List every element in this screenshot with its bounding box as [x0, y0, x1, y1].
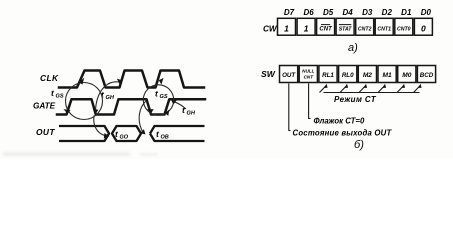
svg-text:CLK: CLK	[40, 73, 59, 83]
svg-text:1: 1	[284, 24, 289, 34]
text Sostoyanie vyhoda OUT	[293, 129, 393, 138]
label tGS second	[155, 89, 168, 101]
label tGH second	[182, 105, 196, 117]
CW bit header D6	[303, 8, 314, 17]
svg-text:GS: GS	[56, 94, 64, 100]
svg-text:t: t	[155, 89, 159, 99]
leader line from NULL CNT cell down	[309, 84, 311, 119]
svg-text:CW: CW	[263, 25, 278, 34]
OUT signal label	[36, 127, 55, 137]
curved arrow GATE fall1 to OUT transition1	[94, 115, 110, 138]
svg-text:D7: D7	[284, 8, 295, 17]
svg-text:D0: D0	[421, 8, 432, 17]
curved arrow GATE fall2 to OUT transition2	[139, 101, 146, 135]
text Rezhim CT	[334, 95, 377, 104]
CW bit cell D5: CNT	[317, 18, 335, 35]
svg-text:NULL: NULL	[302, 69, 314, 74]
label tGO inside OUT segment 2	[115, 129, 129, 141]
SW bit cell D3: M2	[358, 66, 376, 83]
svg-text:D5: D5	[323, 8, 334, 17]
svg-text:M1: M1	[383, 72, 392, 79]
SW bit cell D0: BCD	[417, 66, 435, 83]
caption b) under SW diagram	[354, 139, 364, 151]
svg-text:Режим СТ: Режим СТ	[334, 95, 377, 104]
svg-text:D4: D4	[342, 8, 353, 17]
GATE signal label	[33, 102, 56, 111]
CW bit cell D0: 0	[414, 18, 432, 35]
label tGH first	[101, 90, 115, 102]
CW bit header D0	[421, 8, 432, 17]
svg-text:M2: M2	[363, 72, 372, 79]
svg-text:GH: GH	[106, 95, 115, 101]
svg-text:STAT: STAT	[339, 27, 353, 33]
CW bit header D5	[323, 8, 334, 17]
CLK signal label	[40, 73, 59, 83]
svg-text:Флажок СТ=0: Флажок СТ=0	[314, 117, 365, 126]
SW bit cell D2: M1	[378, 66, 396, 83]
svg-text:t: t	[51, 88, 55, 98]
CW bit header D3	[362, 8, 373, 17]
caption a) under CW register	[348, 42, 358, 54]
curved arrow circle tGS2: GATE edges to CLK rise3	[143, 78, 173, 116]
svg-text:t: t	[156, 129, 160, 139]
CW bit header D2	[382, 8, 393, 17]
svg-text:D6: D6	[303, 8, 314, 17]
CW bit cell D6: 1	[297, 18, 315, 35]
svg-text:CNT0: CNT0	[397, 27, 411, 33]
CW bit cell D7: 1	[278, 18, 296, 35]
svg-text:D1: D1	[401, 8, 412, 17]
svg-text:CNT: CNT	[304, 75, 315, 80]
svg-text:D2: D2	[382, 8, 393, 17]
svg-text:RL1: RL1	[322, 72, 334, 79]
leader line from OUT cell down	[289, 84, 291, 131]
CW bit cell D2: CNT1	[375, 18, 393, 35]
svg-text:1: 1	[304, 24, 309, 34]
CW bit header D7	[284, 8, 295, 17]
SW bit cell D5: RL1	[319, 66, 337, 83]
svg-text:M0: M0	[402, 72, 411, 79]
text Flazhok CT=0	[314, 117, 365, 126]
label tGS first	[51, 88, 64, 100]
svg-text:б): б)	[354, 139, 364, 151]
svg-text:SW: SW	[261, 69, 276, 79]
SW bit cell D6: NULL CNT	[299, 66, 317, 83]
faint cropped caption remnant bottom-left	[2, 152, 158, 156]
CW register label	[263, 25, 278, 34]
svg-text:GATE: GATE	[33, 102, 56, 111]
SW register label	[261, 69, 276, 79]
CW bit cell D4: STAT	[336, 18, 354, 35]
svg-text:RL0: RL0	[342, 72, 354, 79]
svg-text:CNT2: CNT2	[358, 27, 372, 33]
svg-text:t: t	[115, 129, 119, 139]
svg-text:OUT: OUT	[282, 72, 296, 79]
curved arrow circle tGS1: GATE rise1 to CLK rise1	[64, 78, 103, 120]
svg-text:GS: GS	[160, 94, 168, 100]
svg-text:OUT: OUT	[36, 127, 55, 137]
SW bit cell D7: OUT	[280, 66, 298, 83]
comb leader lines with arrows into RL1..BCD cells	[320, 84, 422, 93]
svg-text:0: 0	[421, 24, 426, 34]
svg-text:Состояние выхода OUT: Состояние выхода OUT	[293, 129, 393, 138]
CW bit header D1	[401, 8, 412, 17]
GATE waveform trace	[57, 99, 205, 114]
OUT bus segment 2 (tGO)	[112, 126, 141, 141]
SW bit cell D1: M0	[398, 66, 416, 83]
svg-text:CNT1: CNT1	[377, 27, 391, 33]
CW bit cell D3: CNT2	[356, 18, 374, 35]
CW bit cell D1: CNT0	[395, 18, 413, 35]
curved arrow tGH1: CLK rise2 to GATE fall1	[93, 79, 122, 115]
curved arrow tGH2: to GATE rise3 top corner	[171, 100, 186, 109]
SW bit cell D4: RL0	[339, 66, 357, 83]
svg-text:CNT: CNT	[319, 27, 333, 33]
svg-text:GO: GO	[120, 135, 129, 141]
OUT bus segment 1	[59, 126, 109, 141]
CW bit header D4	[342, 8, 353, 17]
svg-text:D3: D3	[362, 8, 373, 17]
svg-text:а): а)	[348, 42, 358, 54]
label tOD inside OUT segment 3	[156, 129, 169, 141]
svg-text:OB: OB	[161, 135, 169, 141]
svg-text:GH: GH	[187, 111, 196, 117]
OUT bus segment 3 (tOD)	[150, 126, 205, 141]
svg-text:BCD: BCD	[420, 72, 434, 79]
CLK waveform trace	[59, 71, 204, 88]
